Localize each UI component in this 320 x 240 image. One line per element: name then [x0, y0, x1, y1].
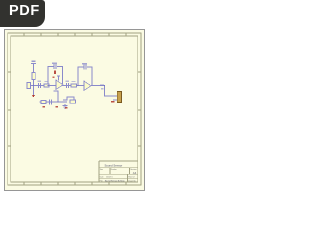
microphone MK1 [27, 83, 31, 89]
op-amp U1B [84, 81, 91, 91]
wire mic ground drop [33, 86, 35, 96]
power port red (mic drop) [32, 95, 35, 98]
frame tick marks left [8, 72, 11, 146]
connector P1 pins [113, 96, 117, 100]
svg-text:Size: Size [100, 169, 103, 171]
red designator loop1 [54, 71, 56, 74]
designator smudge C2 [52, 63, 57, 64]
net label OUT [100, 85, 104, 87]
wire main signal path [30, 85, 56, 87]
wire lower rail [40, 101, 63, 103]
frame tick marks top [24, 33, 126, 36]
wire opamp1 output to opamp2 input [63, 85, 84, 87]
capacitor C2 (loop1 feedback) [54, 64, 56, 69]
wire loop1 left [48, 67, 53, 86]
designator smudges series parts [38, 81, 76, 83]
wire feedback lower [54, 91, 58, 102]
frame tick marks right [138, 72, 141, 146]
svg-text:Sheet of: Sheet of [128, 175, 135, 178]
resistor R3 (series mid) [71, 84, 77, 87]
title block text [100, 163, 137, 182]
title block [99, 161, 138, 182]
ground symbol [63, 104, 68, 109]
red designator U1A [53, 77, 55, 79]
PDF badge [0, 0, 45, 27]
designator smudge C4 [82, 63, 87, 64]
junction dots [33, 85, 106, 103]
wire loop2 left [78, 67, 83, 86]
wire loop2 right [88, 67, 93, 86]
page sheet [5, 30, 145, 191]
svg-text:File:: File: [100, 180, 104, 182]
op-amp U1A [56, 80, 63, 90]
svg-text:Sound Sensor.SchDoc: Sound Sensor.SchDoc [105, 180, 125, 182]
wire rc to ground [67, 97, 74, 100]
svg-text:2021/1/1: 2021/1/1 [106, 176, 113, 178]
sheet frame inner border [11, 36, 138, 182]
wire loop1 right [58, 67, 63, 86]
designator smudge VCC [32, 61, 36, 63]
wire bias branch vertical [33, 64, 35, 86]
svg-text:A4: A4 [133, 171, 137, 175]
svg-text:Date:: Date: [100, 175, 105, 178]
svg-text:Number: Number [111, 168, 117, 171]
red designator P1 [111, 101, 115, 103]
capacitor C6 (parallel to ground) [63, 100, 67, 102]
capacitor C4 (loop2 feedback) [84, 65, 86, 70]
power symbol VCC T-bar [31, 63, 36, 65]
capacitor C1 (series input) [39, 83, 41, 88]
capacitor C5 (lower rail) [50, 100, 52, 105]
red designators on lower rail [43, 106, 46, 108]
svg-text:Sound Sensor: Sound Sensor [105, 163, 123, 167]
connector P1 body [117, 92, 121, 103]
resistor R5 (parallel to ground) [70, 100, 76, 103]
resistor R2 (series) [44, 84, 49, 87]
svg-text:Drawn By:: Drawn By: [128, 179, 136, 182]
resistor R4 (lower rail) [41, 101, 46, 104]
wire output down [105, 86, 114, 97]
capacitor C3 (series mid) [67, 83, 69, 88]
resistor R1 (bias, vertical) [32, 73, 35, 80]
op-amp U1A power stub [57, 76, 60, 81]
sheet frame outer border [8, 33, 141, 185]
wire opamp2 output [91, 85, 105, 87]
frame tick marks bottom [24, 182, 126, 185]
